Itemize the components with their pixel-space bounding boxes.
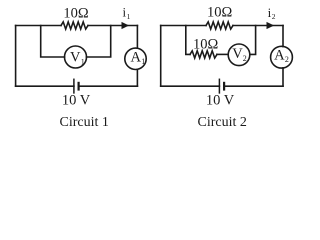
svg-text:Circuit 2: Circuit 2 (198, 115, 247, 130)
wire left side Circuit 2 (160, 26, 162, 87)
wire bottom-right segment Circuit 1 (79, 85, 138, 87)
current arrow i1 Circuit 1 (122, 22, 130, 29)
wire branch right Circuit 2 (250, 26, 256, 55)
wire top-right segment Circuit 2 (233, 25, 283, 27)
resistor R1 10Ω Circuit 1 (61, 22, 88, 29)
resistor R2 10Ω Circuit 2 top (206, 22, 233, 29)
svg-text:10 V: 10 V (206, 92, 235, 108)
svg-text:1: 1 (141, 57, 145, 66)
wire right side lower Circuit 1 (ammeter to bottom) (136, 69, 138, 86)
wire right side upper Circuit 2 (to ammeter) (282, 26, 284, 47)
svg-text:V: V (232, 46, 243, 62)
svg-text:1: 1 (81, 57, 85, 66)
wire top-right segment Circuit 1 (88, 25, 137, 27)
resistor R3 10Ω Circuit 2 branch (190, 51, 217, 58)
battery 10V Circuit 2 short plate (223, 83, 225, 90)
wire top-left segment Circuit 2 (161, 25, 206, 27)
wire voltmeter branch left Circuit 1 (41, 26, 65, 58)
wire branch left vertical Circuit 2 (186, 26, 190, 55)
svg-text:10 V: 10 V (62, 93, 91, 109)
svg-text:10Ω: 10Ω (63, 6, 89, 22)
wire left side Circuit 1 (15, 26, 17, 87)
current arrow i2 Circuit 2 (267, 22, 275, 29)
svg-text:A: A (274, 48, 285, 64)
battery 10V Circuit 1 long plate (73, 79, 75, 93)
svg-text:2: 2 (243, 54, 247, 63)
svg-text:10Ω: 10Ω (193, 36, 219, 52)
wire bottom-left segment Circuit 2 (161, 85, 220, 87)
svg-text:2: 2 (272, 12, 276, 21)
wire voltmeter branch right Circuit 1 (87, 26, 111, 58)
wire branch middle Circuit 2 (resistor to voltmeter) (217, 53, 228, 55)
svg-text:2: 2 (285, 55, 289, 64)
svg-text:Circuit 1: Circuit 1 (60, 115, 109, 130)
voltmeter V2 (228, 44, 250, 66)
wire right side lower Circuit 2 (ammeter to bottom) (282, 68, 284, 86)
voltmeter V1 (65, 46, 87, 68)
svg-text:1: 1 (127, 12, 131, 21)
wire bottom-right segment Circuit 2 (224, 85, 283, 87)
wire bottom-left segment Circuit 1 (16, 85, 74, 87)
battery 10V Circuit 2 long plate (218, 79, 220, 93)
ammeter A1 (125, 48, 146, 69)
ammeter A2 (271, 46, 293, 68)
svg-text:10Ω: 10Ω (207, 5, 233, 21)
svg-text:A: A (131, 50, 142, 66)
svg-text:V: V (70, 50, 81, 66)
wire top-left segment Circuit 1 (16, 25, 61, 27)
wire right side upper Circuit 1 (to ammeter) (136, 26, 138, 49)
battery 10V Circuit 1 short plate (77, 83, 79, 90)
